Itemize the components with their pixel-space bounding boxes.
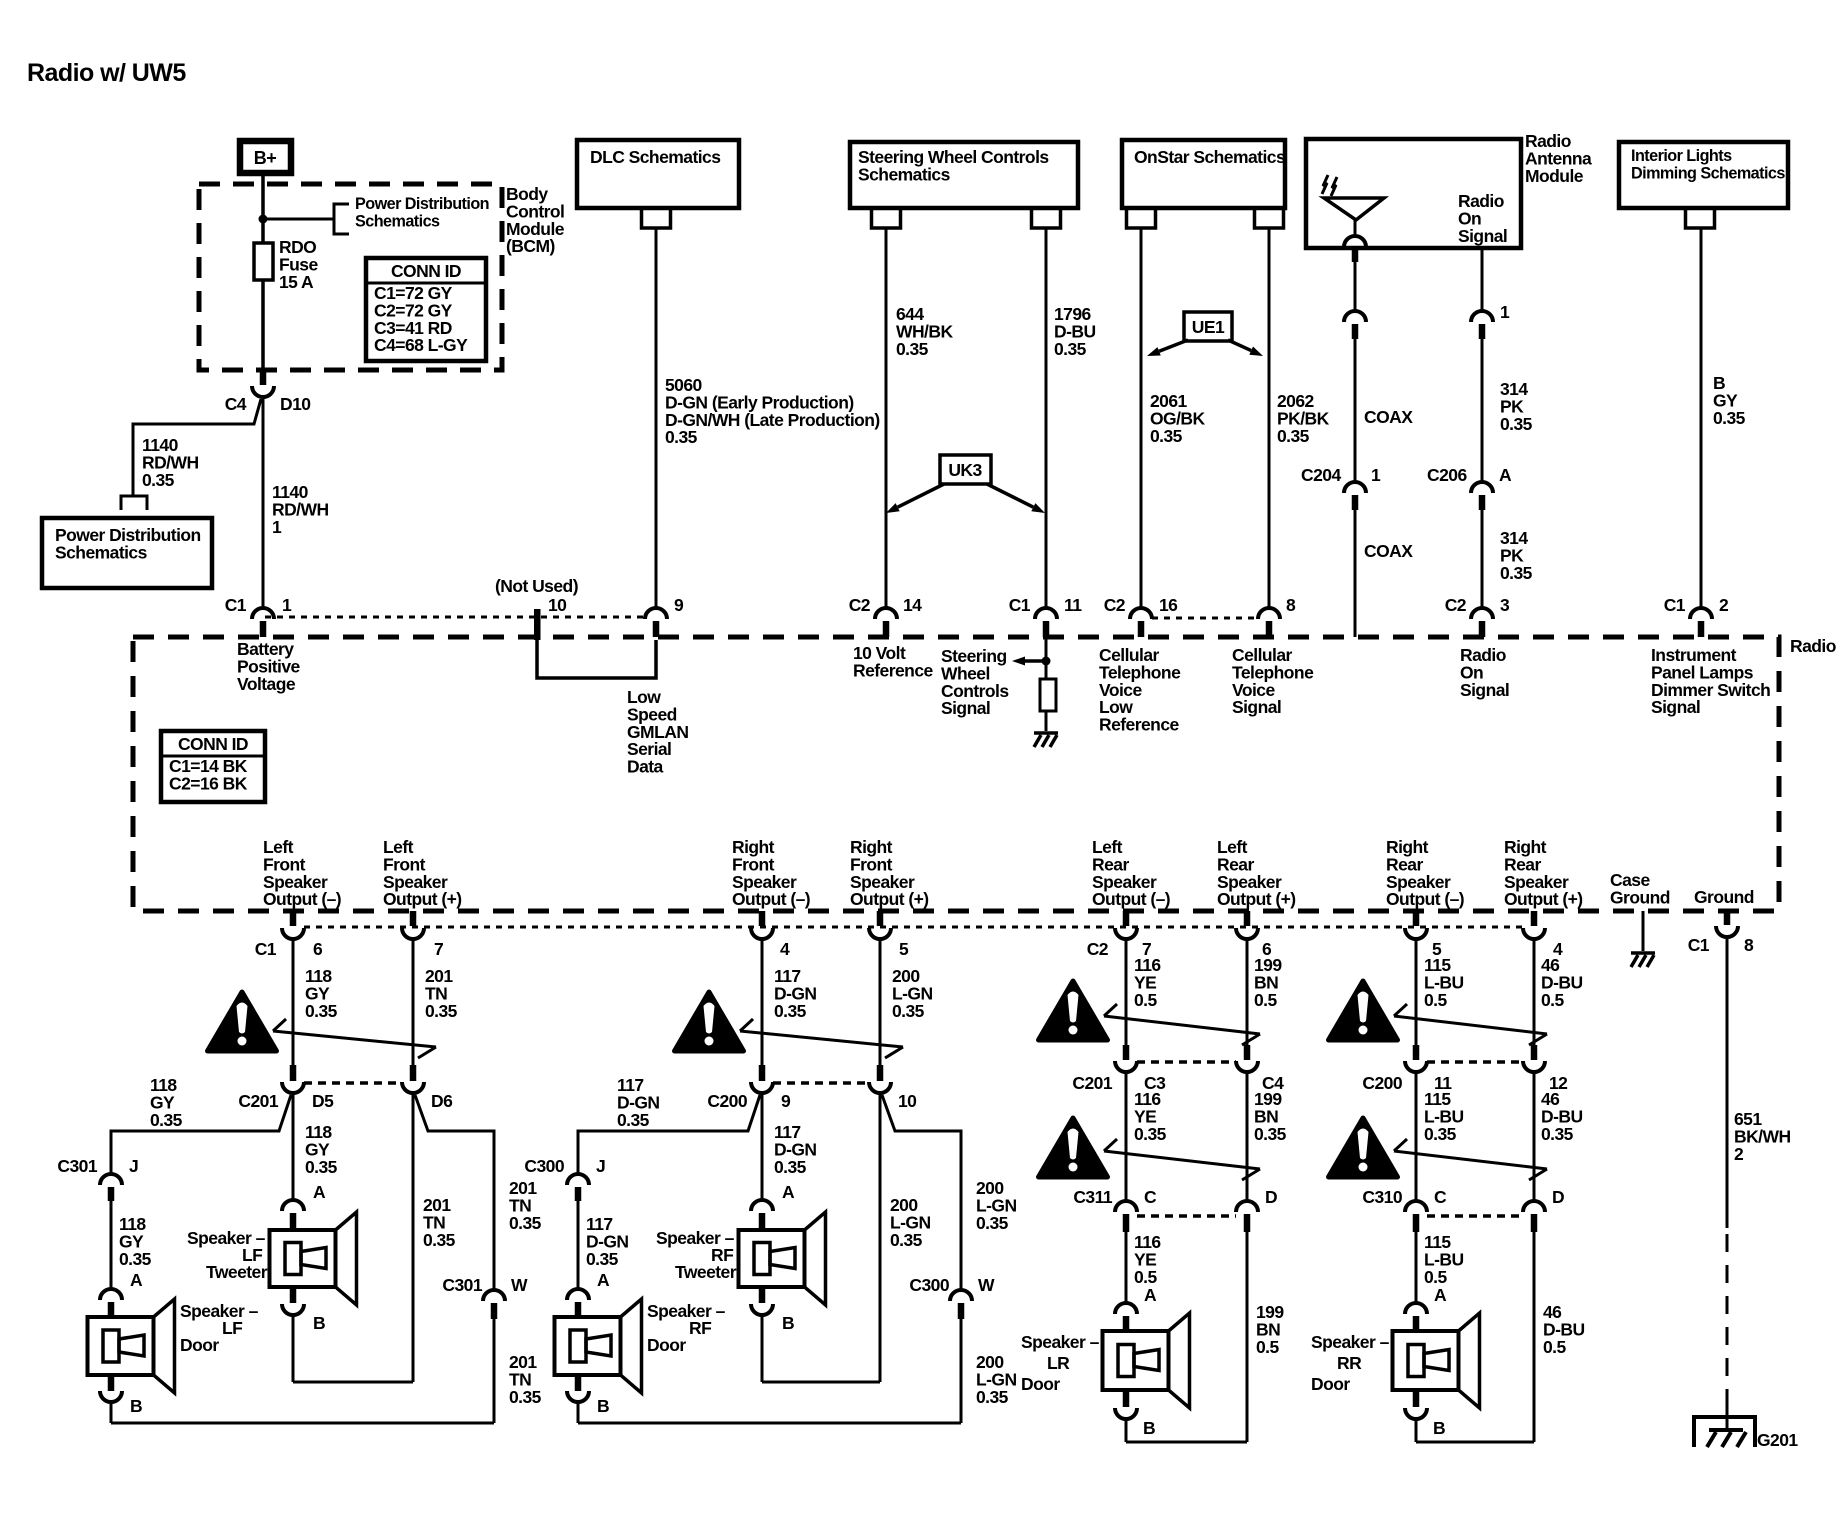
svg-text:9: 9 [781,1091,791,1111]
svg-text:Reference: Reference [1099,715,1179,735]
svg-text:0.35: 0.35 [976,1387,1009,1407]
svg-text:Signal: Signal [941,698,990,718]
svg-text:D-GN/WH (Late Production): D-GN/WH (Late Production) [665,410,880,430]
svg-text:6: 6 [313,939,323,959]
svg-text:0.5: 0.5 [1424,990,1447,1010]
svg-text:Output (+): Output (+) [1217,889,1296,909]
svg-text:0.35: 0.35 [1500,563,1533,583]
svg-text:Signal: Signal [1232,697,1281,717]
svg-text:1: 1 [1371,465,1381,485]
svg-text:CONN ID: CONN ID [178,734,248,754]
svg-text:D10: D10 [280,394,311,414]
svg-text:C200: C200 [707,1091,747,1111]
svg-text:C301: C301 [57,1156,97,1176]
svg-text:C1: C1 [1664,595,1686,615]
svg-text:0.35: 0.35 [665,427,698,447]
svg-text:7: 7 [434,939,443,959]
svg-text:J: J [129,1156,138,1176]
svg-text:Signal: Signal [1460,680,1509,700]
svg-text:0.35: 0.35 [1500,414,1533,434]
svg-text:2: 2 [1719,595,1729,615]
svg-text:D6: D6 [431,1091,453,1111]
svg-text:Voltage: Voltage [237,674,296,694]
svg-text:C2: C2 [1104,595,1126,615]
svg-text:Output (+): Output (+) [1504,889,1583,909]
svg-text:Door: Door [180,1335,219,1355]
svg-text:0.5: 0.5 [1424,1267,1447,1287]
svg-text:C206: C206 [1427,465,1467,485]
svg-text:0.35: 0.35 [1134,1124,1167,1144]
svg-text:Ground: Ground [1694,887,1754,907]
svg-text:B+: B+ [254,148,276,168]
svg-text:0.35: 0.35 [774,1157,807,1177]
svg-text:10: 10 [548,595,567,615]
svg-text:W: W [511,1275,528,1295]
svg-text:0.35: 0.35 [142,470,175,490]
svg-text:Door: Door [647,1335,686,1355]
svg-text:C: C [1434,1187,1447,1207]
svg-text:C201: C201 [1072,1073,1112,1093]
svg-text:A: A [782,1182,795,1202]
svg-text:15 A: 15 A [279,272,314,292]
svg-text:RF: RF [689,1318,712,1338]
svg-text:C2: C2 [1087,939,1109,959]
svg-text:Output (–): Output (–) [1092,889,1170,909]
svg-text:Power Distribution: Power Distribution [355,195,489,213]
svg-text:Dimming Schematics: Dimming Schematics [1631,164,1785,182]
svg-text:COAX: COAX [1364,541,1413,561]
svg-text:C1: C1 [255,939,277,959]
svg-text:Signal: Signal [1651,697,1700,717]
svg-text:Door: Door [1021,1374,1060,1394]
svg-text:J: J [596,1156,605,1176]
svg-text:C1: C1 [1688,935,1710,955]
svg-text:0.35: 0.35 [890,1230,923,1250]
svg-text:0.35: 0.35 [425,1001,458,1021]
svg-text:Module: Module [1525,166,1584,186]
svg-text:B: B [130,1396,142,1416]
svg-text:Data: Data [627,757,664,777]
svg-text:D5: D5 [312,1091,334,1111]
svg-text:Ground: Ground [1610,887,1670,907]
svg-text:0.35: 0.35 [150,1110,183,1130]
svg-text:0.35: 0.35 [1277,426,1310,446]
svg-text:3: 3 [1500,595,1510,615]
svg-text:Output (–): Output (–) [1386,889,1464,909]
svg-text:0.35: 0.35 [1424,1124,1457,1144]
svg-text:C1: C1 [225,595,247,615]
svg-text:0.35: 0.35 [305,1001,338,1021]
svg-text:0.35: 0.35 [896,339,929,359]
svg-text:B: B [313,1313,325,1333]
svg-text:C300: C300 [524,1156,564,1176]
svg-text:LR: LR [1047,1353,1070,1373]
svg-text:C301: C301 [442,1275,482,1295]
svg-text:A: A [130,1270,143,1290]
svg-text:14: 14 [903,595,922,615]
svg-text:A: A [1434,1285,1447,1305]
svg-text:0.5: 0.5 [1254,990,1277,1010]
svg-text:C2=16 BK: C2=16 BK [169,773,248,793]
svg-text:Speaker –: Speaker – [1311,1332,1390,1352]
svg-text:OnStar Schematics: OnStar Schematics [1134,147,1286,167]
svg-text:B: B [1433,1418,1445,1438]
svg-text:Signal: Signal [1458,226,1507,246]
svg-text:1: 1 [272,517,282,537]
svg-text:B: B [597,1396,609,1416]
svg-text:0.35: 0.35 [509,1213,542,1233]
svg-text:0.35: 0.35 [305,1157,338,1177]
svg-text:Tweeter: Tweeter [206,1262,268,1282]
svg-text:D: D [1552,1187,1564,1207]
svg-text:Reference: Reference [853,660,933,680]
svg-text:Speaker –: Speaker – [647,1301,726,1321]
svg-text:0.35: 0.35 [119,1249,152,1269]
svg-text:CONN ID: CONN ID [391,261,461,281]
svg-text:0.35: 0.35 [1054,339,1087,359]
svg-text:2: 2 [1734,1144,1744,1164]
svg-text:B: B [1143,1418,1155,1438]
svg-text:Radio w/ UW5: Radio w/ UW5 [27,59,186,87]
svg-text:0.35: 0.35 [1541,1124,1574,1144]
svg-text:5: 5 [899,939,909,959]
svg-text:Output (–): Output (–) [732,889,810,909]
svg-text:LF: LF [222,1318,243,1338]
svg-text:Schematics: Schematics [858,164,951,184]
svg-text:0.35: 0.35 [509,1387,542,1407]
svg-text:1: 1 [282,595,292,615]
svg-text:C311: C311 [1073,1187,1112,1207]
svg-text:0.5: 0.5 [1134,1267,1157,1287]
svg-text:C2: C2 [1445,595,1467,615]
svg-text:0.35: 0.35 [774,1001,807,1021]
svg-text:8: 8 [1744,935,1754,955]
svg-text:(Not Used): (Not Used) [495,576,578,596]
svg-text:C: C [1144,1187,1157,1207]
svg-text:0.35: 0.35 [1150,426,1183,446]
svg-text:Speaker –: Speaker – [1021,1332,1100,1352]
svg-text:Output (+): Output (+) [383,889,462,909]
svg-text:Tweeter: Tweeter [675,1262,737,1282]
svg-text:0.35: 0.35 [1713,408,1746,428]
svg-text:4: 4 [780,939,790,959]
svg-text:Output (–): Output (–) [263,889,341,909]
svg-text:9: 9 [674,595,684,615]
svg-text:8: 8 [1286,595,1296,615]
svg-text:0.5: 0.5 [1134,990,1157,1010]
svg-text:0.5: 0.5 [1543,1337,1566,1357]
svg-text:1: 1 [1500,302,1510,322]
svg-text:Speaker –: Speaker – [180,1301,259,1321]
svg-text:RR: RR [1337,1353,1362,1373]
svg-text:0.35: 0.35 [892,1001,925,1021]
svg-text:Radio: Radio [1790,636,1836,656]
svg-text:0.35: 0.35 [586,1249,619,1269]
svg-text:W: W [978,1275,995,1295]
svg-text:(BCM): (BCM) [506,236,555,256]
svg-text:16: 16 [1159,595,1178,615]
svg-text:C200: C200 [1362,1073,1402,1093]
svg-text:0.35: 0.35 [976,1213,1009,1233]
svg-text:Door: Door [1311,1374,1350,1394]
svg-text:UE1: UE1 [1192,317,1225,337]
svg-text:COAX: COAX [1364,407,1413,427]
svg-text:C201: C201 [238,1091,278,1111]
svg-text:Schematics: Schematics [355,212,440,230]
svg-text:A: A [1144,1285,1157,1305]
svg-text:Output (+): Output (+) [850,889,929,909]
svg-text:A: A [597,1270,610,1290]
svg-text:C204: C204 [1301,465,1341,485]
svg-text:C2: C2 [849,595,871,615]
svg-text:Interior Lights: Interior Lights [1631,147,1732,165]
svg-text:C4=68 L-GY: C4=68 L-GY [374,335,468,355]
svg-text:C300: C300 [909,1275,949,1295]
svg-text:0.35: 0.35 [423,1230,456,1250]
svg-text:A: A [313,1182,326,1202]
svg-text:B: B [782,1313,794,1333]
svg-text:D: D [1265,1187,1277,1207]
svg-text:0.35: 0.35 [617,1110,650,1130]
svg-text:A: A [1499,465,1512,485]
svg-text:G201: G201 [1757,1430,1798,1450]
svg-text:DLC Schematics: DLC Schematics [590,147,721,167]
svg-text:10: 10 [898,1091,917,1111]
svg-text:Schematics: Schematics [55,542,148,562]
svg-text:C1: C1 [1009,595,1031,615]
svg-text:C4: C4 [225,394,247,414]
svg-text:11: 11 [1064,595,1082,615]
svg-text:0.5: 0.5 [1541,990,1564,1010]
svg-text:C310: C310 [1362,1187,1402,1207]
svg-text:0.35: 0.35 [1254,1124,1287,1144]
svg-text:0.5: 0.5 [1256,1337,1279,1357]
svg-text:UK3: UK3 [948,460,982,480]
